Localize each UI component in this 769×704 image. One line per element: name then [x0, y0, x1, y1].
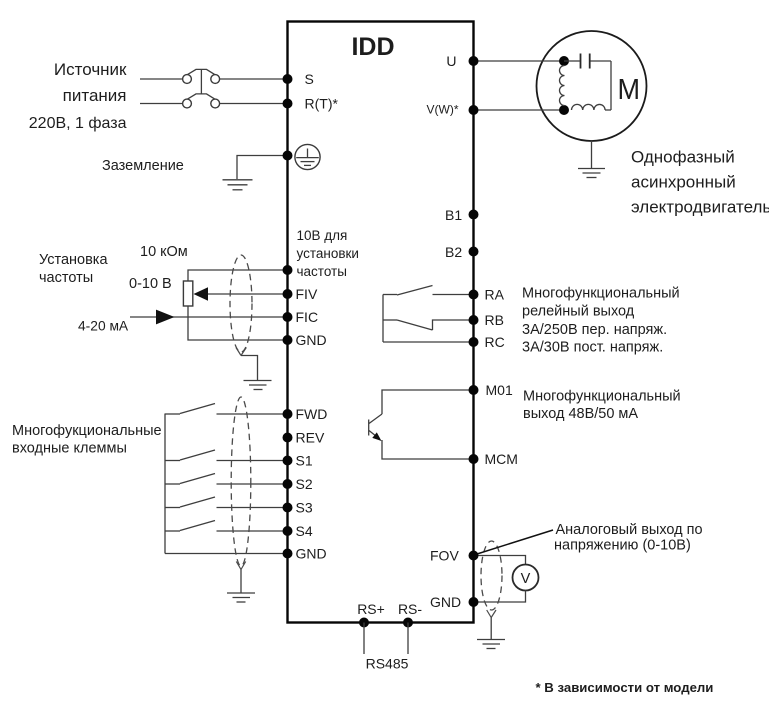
svg-text:FOV: FOV	[430, 548, 459, 564]
inductor main winding	[560, 66, 565, 106]
svg-text:RA: RA	[485, 287, 505, 303]
wire U to motor	[474, 60, 565, 62]
breaker QF link bar	[200, 69, 202, 94]
terminal FIV dot	[283, 289, 293, 299]
terminal PE dot	[283, 151, 293, 161]
svg-text:V(W)*: V(W)*	[427, 103, 459, 117]
callout line analog output	[477, 530, 553, 554]
svg-text:REV: REV	[296, 430, 325, 446]
svg-text:MCM: MCM	[485, 451, 518, 467]
terminal 10V dot	[283, 265, 293, 275]
svg-text:напряжению (0-10В): напряжению (0-10В)	[554, 538, 691, 554]
svg-text:Аналоговый выход по: Аналоговый выход по	[556, 522, 703, 538]
arrow 4-20mA	[156, 310, 175, 325]
terminal REV dot	[283, 433, 293, 443]
wire RS- stub	[407, 623, 409, 655]
motor circle M	[537, 31, 647, 141]
label power source	[29, 60, 127, 132]
svg-text:питания: питания	[63, 86, 127, 105]
svg-text:Источник: Источник	[54, 60, 127, 79]
ground symbol earthing	[223, 180, 253, 190]
svg-text:RS-: RS-	[398, 601, 422, 617]
label single-phase motor	[631, 148, 769, 217]
wire phase S left segment	[140, 78, 183, 80]
voltmeter V	[513, 565, 539, 591]
svg-text:S1: S1	[296, 453, 313, 469]
svg-text:Установка: Установка	[39, 252, 108, 268]
wire voltmeter to GND	[474, 590, 526, 602]
terminal S4 dot	[283, 526, 293, 536]
wire motor right branch	[610, 61, 612, 110]
svg-text:B2: B2	[445, 244, 462, 260]
svg-text:частоты: частоты	[39, 270, 93, 286]
svg-text:релейный выход: релейный выход	[522, 304, 635, 320]
arrow wiper FIV	[194, 287, 209, 300]
terminal R(T) dot	[283, 99, 293, 109]
relay bus bar	[382, 295, 384, 343]
svg-text:U: U	[446, 53, 456, 69]
svg-text:R(T)*: R(T)*	[305, 96, 339, 112]
svg-text:M: M	[618, 73, 641, 105]
switch S4	[165, 521, 288, 532]
terminal V(W) dot	[469, 105, 479, 115]
terminal S2 dot	[283, 479, 293, 489]
terminal B1 dot	[469, 210, 479, 220]
svg-text:Однофазный: Однофазный	[631, 148, 735, 167]
svg-text:S4: S4	[296, 523, 313, 539]
shield tail digital	[236, 562, 245, 593]
switch S1	[165, 450, 288, 461]
inverter box IDD	[288, 22, 474, 623]
terminal M01 dot	[469, 385, 479, 395]
terminal GND digital dot	[283, 549, 293, 559]
label open collector output	[523, 389, 681, 423]
svg-text:S: S	[305, 71, 314, 87]
label frequency setting	[39, 252, 108, 286]
svg-text:220В, 1 фаза: 220В, 1 фаза	[29, 115, 127, 132]
shield ellipse analog	[230, 255, 252, 352]
svg-text:RS485: RS485	[366, 656, 409, 672]
wire FIV	[206, 293, 288, 295]
svg-text:10В для: 10В для	[297, 228, 348, 243]
shield tail FOV	[487, 610, 496, 639]
wire M01	[382, 390, 474, 414]
svg-text:GND: GND	[296, 332, 327, 348]
terminal RS- dot	[403, 618, 413, 628]
svg-text:FIV: FIV	[296, 286, 318, 302]
terminal GND analog dot	[283, 335, 293, 345]
svg-text:S2: S2	[296, 476, 313, 492]
terminal S1 dot	[283, 456, 293, 466]
terminal U dot	[469, 56, 479, 66]
svg-text:RS+: RS+	[357, 601, 385, 617]
switch FWD	[165, 404, 288, 415]
svg-text:* В зависимости от модели: * В зависимости от модели	[536, 680, 714, 695]
wire RC common	[383, 341, 474, 343]
svg-text:IDD: IDD	[351, 33, 394, 61]
svg-text:M01: M01	[486, 382, 513, 398]
svg-text:B1: B1	[445, 207, 462, 223]
breaker QF pole 2 contacts	[183, 94, 220, 108]
svg-text:RB: RB	[485, 312, 504, 328]
svg-text:V: V	[521, 571, 531, 587]
svg-text:асинхронный: асинхронный	[631, 173, 736, 192]
svg-text:Многофункциональный: Многофункциональный	[522, 286, 680, 302]
svg-text:4-20 мА: 4-20 мА	[78, 319, 129, 334]
ground symbol FOV shield	[477, 640, 505, 649]
label multifunction inputs	[12, 423, 162, 457]
label relay output	[522, 286, 680, 356]
ground symbol digital shield	[227, 593, 255, 602]
wire motor ground stem	[591, 141, 593, 168]
wire 10V supply	[188, 270, 288, 281]
wire FIC 4-20mA	[130, 316, 288, 318]
svg-text:S3: S3	[296, 500, 313, 516]
svg-text:электродвигатель: электродвигатель	[631, 198, 769, 217]
svg-text:установки: установки	[297, 246, 359, 261]
wire RS+ stub	[363, 623, 365, 655]
capacitor C start	[564, 54, 611, 69]
label 10V for frequency	[297, 228, 359, 279]
switch S3	[165, 497, 288, 508]
terminal RS+ dot	[359, 618, 369, 628]
shield ellipse digital	[231, 397, 251, 566]
ground symbol motor	[578, 169, 605, 178]
relay contact RB	[383, 320, 474, 330]
terminal FIC dot	[283, 312, 293, 322]
svg-text:Многофункциональный: Многофункциональный	[523, 389, 681, 405]
svg-text:RC: RC	[485, 334, 505, 350]
PE terminal circle symbol	[295, 144, 320, 169]
svg-text:FWD: FWD	[296, 406, 328, 422]
terminal S dot	[283, 74, 293, 84]
wire earthing	[237, 156, 288, 180]
terminal S3 dot	[283, 503, 293, 513]
wire GND digital	[165, 553, 288, 555]
wire V(W) to motor	[474, 109, 565, 111]
terminal FOV dot	[469, 551, 479, 561]
wire MCM	[382, 440, 474, 459]
svg-text:входные клеммы: входные клеммы	[12, 441, 127, 457]
wire phase R left segment	[140, 103, 183, 105]
ground symbol analog shield	[244, 381, 272, 390]
svg-text:10 кОм: 10 кОм	[140, 244, 188, 260]
terminal FWD dot	[283, 409, 293, 419]
wire phase S right segment	[220, 78, 288, 80]
inductor aux winding	[572, 104, 612, 110]
terminal GND output dot	[469, 597, 479, 607]
node motor top	[559, 56, 569, 66]
label analog output	[554, 522, 703, 554]
terminal B2 dot	[469, 247, 479, 257]
terminal RA dot	[469, 290, 479, 300]
breaker QF pole 1 contacts	[183, 69, 220, 83]
transistor Q1 open collector	[369, 414, 382, 441]
potentiometer R 10k	[183, 281, 192, 306]
svg-text:Заземление: Заземление	[102, 158, 184, 174]
shield tail analog	[236, 348, 258, 381]
input bus bar	[164, 414, 166, 554]
svg-text:выход 48В/50 мА: выход 48В/50 мА	[523, 406, 638, 422]
svg-text:Многофукциональные: Многофукциональные	[12, 423, 162, 439]
terminal RC dot	[469, 337, 479, 347]
relay contact RA	[383, 286, 474, 296]
terminal MCM dot	[469, 454, 479, 464]
node motor bottom	[559, 105, 569, 115]
svg-text:3А/30В пост. напряж.: 3А/30В пост. напряж.	[522, 340, 663, 356]
svg-text:0-10 В: 0-10 В	[129, 276, 172, 292]
wire phase R right segment	[220, 103, 288, 105]
switch S2	[165, 474, 288, 485]
svg-text:3А/250В пер. напряж.: 3А/250В пер. напряж.	[522, 322, 667, 338]
wire FOV to voltmeter	[474, 556, 526, 565]
svg-text:частоты: частоты	[297, 264, 347, 279]
wire pot bottom to GND	[188, 306, 288, 340]
svg-text:GND: GND	[430, 594, 461, 610]
shield ellipse FOV	[481, 541, 502, 610]
terminal RB dot	[469, 315, 479, 325]
svg-text:GND: GND	[296, 546, 327, 562]
svg-text:FIC: FIC	[296, 309, 319, 325]
